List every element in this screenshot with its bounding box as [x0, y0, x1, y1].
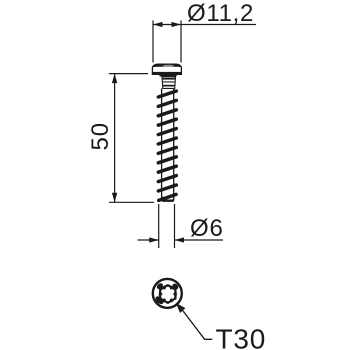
screw tip: [162, 196, 174, 201]
extension line left Ø6: [158, 204, 160, 248]
torx recess lobe bumps: [159, 284, 177, 304]
ribbed neck: [162, 77, 176, 89]
torx recess star cavity: [161, 287, 174, 302]
arrowhead down 50: [112, 193, 117, 203]
thread helix: [158, 91, 176, 200]
extension line bottom 50: [109, 201, 154, 203]
svg-text:T30: T30: [216, 324, 267, 350]
extension line left Ø11,2: [152, 21, 154, 63]
extension line top 50: [109, 73, 148, 75]
svg-text:50: 50: [87, 122, 114, 151]
collar under head: [159, 74, 177, 76]
head marking blob lower-left: [154, 295, 165, 306]
arrowhead left-pointing Ø6: [175, 237, 185, 242]
arrowhead right-pointing Ø6: [149, 237, 159, 242]
shank core: [162, 89, 174, 201]
screw head (side view): [152, 64, 182, 74]
arrowhead right Ø11,2: [172, 22, 182, 27]
svg-text:Ø11,2: Ø11,2: [187, 0, 254, 27]
leader line T30: [183, 311, 213, 340]
dimension line right Ø6: [175, 239, 224, 241]
arrowhead left Ø11,2: [153, 22, 163, 27]
leader arrowhead T30: [176, 303, 186, 313]
dimension line 50: [114, 74, 116, 203]
arrowhead up 50: [112, 74, 117, 84]
screw head top view outer circle: [153, 279, 182, 308]
extension line right Ø11,2: [180, 21, 182, 63]
torx T30 recess ring: [159, 285, 177, 303]
head marking blob upper-left: [156, 282, 164, 290]
dimension line left Ø6: [138, 239, 159, 241]
head marking blob upper-right: [171, 282, 179, 290]
svg-text:Ø6: Ø6: [190, 215, 224, 242]
extension line right Ø6: [174, 204, 176, 248]
dimension line Ø11,2: [153, 24, 256, 26]
